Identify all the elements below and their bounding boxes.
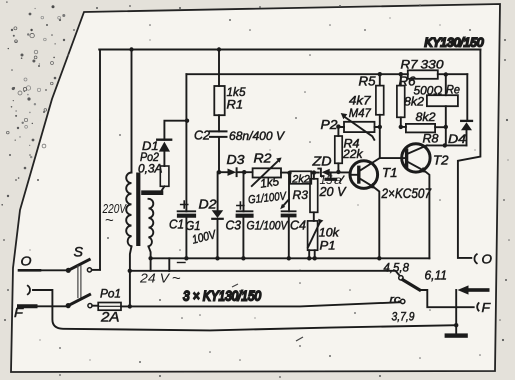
node R3 / divider column [312, 170, 316, 174]
svg-text:20 V: 20 V [318, 185, 347, 199]
wire T2 collector row [427, 144, 467, 146]
svg-text:D2: D2 [199, 198, 217, 212]
svg-text:R2: R2 [254, 152, 272, 166]
stray mark [232, 284, 238, 287]
resistor Re 500ohm [427, 95, 458, 106]
transistor T1 [350, 158, 380, 189]
resistor R7 [408, 70, 438, 79]
relay contact blade [403, 280, 420, 290]
wire divider column [313, 173, 315, 221]
wire arrow column to ground [455, 290, 457, 325]
resistor R8 [406, 124, 435, 132]
svg-text:R1: R1 [227, 98, 244, 112]
wire control supply rail [186, 73, 467, 75]
svg-text:C2: C2 [194, 129, 210, 143]
resistor R5 [376, 86, 384, 115]
terminal F right [477, 300, 491, 315]
switch S pole 2 [66, 295, 99, 309]
node rail / C4 [287, 256, 291, 260]
svg-text:Po2: Po2 [140, 152, 160, 164]
svg-text:2k2: 2k2 [291, 173, 309, 185]
svg-text:O: O [482, 252, 493, 267]
node D3 cathode [242, 170, 246, 174]
wire top supply rail [99, 49, 480, 51]
label 24V~ [139, 270, 181, 287]
wire 220V riser from switch to top rail [99, 50, 101, 270]
svg-text:0,3A: 0,3A [138, 164, 163, 176]
wire R6 column [400, 74, 402, 127]
svg-text:R7: R7 [401, 58, 419, 72]
transformer screen bar [144, 190, 162, 195]
switch S pole 1 [66, 260, 100, 273]
svg-text:G1/100V: G1/100V [247, 221, 289, 233]
svg-text:1k5: 1k5 [259, 174, 280, 191]
terminal F left [14, 305, 66, 320]
svg-text:rc: rc [390, 294, 402, 306]
wire relay feed row [130, 271, 399, 275]
capacitor C3 [237, 172, 253, 258]
svg-text:24 V: 24 V [139, 271, 171, 286]
node R8 / Re [444, 125, 448, 129]
label 15u [320, 175, 345, 187]
wire connector to ground line [33, 290, 456, 330]
node rail / R5 [378, 72, 382, 76]
wire C1 column [185, 74, 187, 258]
relay contact rc upper [399, 276, 403, 280]
node C1 top / D1 branch [185, 119, 189, 123]
svg-text:68n/400 V: 68n/400 V [229, 129, 285, 143]
resistor divider box [310, 179, 318, 213]
wire relay common to F terminal [420, 290, 474, 307]
label C1 plus [181, 201, 188, 208]
wire fuse Po2 to transformer screen [161, 186, 165, 192]
fuse Po1 [98, 303, 121, 311]
connector left [28, 286, 30, 295]
svg-text:C3: C3 [226, 219, 242, 233]
potentiometer P2 [338, 113, 379, 140]
polarity dash [178, 262, 186, 264]
svg-text:10k: 10k [319, 226, 340, 240]
svg-text:6,11: 6,11 [425, 269, 448, 283]
svg-text:D4: D4 [448, 132, 466, 146]
terminal O left [19, 254, 67, 271]
resistor R2 (variable) [252, 158, 282, 187]
resistor R3 2k2 [290, 171, 311, 184]
node collector row / Re [443, 143, 447, 147]
diode D1 [157, 140, 171, 152]
wire transformer primary bottom down to mains row [130, 246, 132, 306]
stray mark 2 [296, 337, 303, 341]
label 220V [102, 202, 128, 229]
wire R8 row [401, 126, 446, 128]
svg-text:8k2: 8k2 [416, 110, 436, 124]
wire T2 emitter to 24V rail [425, 172, 429, 259]
svg-text:3,7,9: 3,7,9 [392, 310, 415, 324]
node fuse row / primary column [128, 304, 132, 308]
svg-text:330: 330 [421, 58, 444, 72]
label C3 plus [237, 202, 244, 209]
svg-text:T1: T1 [382, 166, 398, 180]
svg-text:Po1: Po1 [100, 287, 121, 301]
transformer Tr primary winding [126, 173, 131, 247]
wire Re column [445, 75, 447, 146]
node P1 leg a [307, 256, 311, 260]
capacitor C2 [210, 131, 227, 137]
resistor R4 [335, 136, 342, 163]
svg-text:Re: Re [446, 83, 460, 97]
wire fuse to relay lower contact [121, 302, 401, 306]
diode D2 [212, 172, 224, 258]
wire R5 column [379, 74, 381, 158]
wire R1/C2 column [218, 50, 220, 173]
svg-text:22k: 22k [342, 149, 364, 161]
svg-text:T2: T2 [433, 154, 449, 168]
svg-text:4,5,8: 4,5,8 [384, 261, 410, 275]
node primary / relay feed row [128, 269, 132, 273]
wire rail stub a [150, 258, 152, 271]
svg-text:~: ~ [172, 270, 181, 287]
wire R4 column [337, 127, 339, 172]
node row / R1C2 column [217, 170, 221, 174]
node rail / C3 [241, 256, 245, 260]
node R2 / C4 [287, 171, 291, 175]
wire measuring row [219, 171, 350, 173]
node top rail / transformer primary [129, 47, 133, 51]
wire T1 emitter to 24V rail [375, 188, 380, 258]
svg-text:500Ω: 500Ω [414, 84, 443, 98]
diode D3 [228, 168, 237, 176]
capacitor C4 [280, 173, 295, 258]
wire rail stub b [168, 258, 170, 271]
wire right-side drop from top rail to output terminal O [458, 50, 481, 258]
node R8 / R6 [399, 125, 403, 129]
svg-text:KY130/150: KY130/150 [425, 38, 485, 50]
svg-text:O: O [21, 254, 32, 269]
node rail / T1 emitter [377, 256, 381, 260]
node rail / D2 [215, 256, 219, 260]
svg-text:2×KC507: 2×KC507 [381, 186, 432, 201]
node rail / C1 [184, 256, 188, 260]
node rail / R6 [399, 72, 403, 76]
relay contact rc lower [401, 299, 405, 303]
svg-text:S: S [74, 245, 84, 260]
svg-text:~: ~ [105, 212, 114, 229]
resistor R6 [397, 86, 405, 118]
node rail / Re column [444, 72, 448, 76]
svg-text:P1: P1 [320, 239, 336, 253]
svg-text:2A: 2A [100, 310, 120, 325]
zener diode ZD [318, 169, 329, 177]
svg-text:P2: P2 [321, 118, 338, 132]
node P1 leg b [313, 256, 317, 260]
transformer core [136, 173, 140, 247]
svg-text:3 × KY130/150: 3 × KY130/150 [183, 289, 261, 304]
potentiometer P1 [308, 219, 324, 259]
wire transformer primary top to rail [131, 50, 133, 173]
diode D4 [461, 74, 472, 145]
fuse Po2 [160, 166, 169, 186]
ground [445, 325, 468, 338]
svg-text:F: F [482, 300, 492, 315]
node top rail / R1 column [217, 47, 221, 51]
svg-text:R3: R3 [293, 188, 309, 202]
node bottom wire / ground [454, 323, 458, 327]
node R5 / P2 wiper column [378, 125, 382, 129]
transistor T2 [380, 144, 430, 173]
transformer Tr secondary winding [149, 199, 154, 247]
node rail / secondary [148, 256, 152, 260]
wire D1 branch to C1 node [164, 121, 187, 166]
svg-text:R8: R8 [423, 132, 439, 146]
wire 24V common rail [151, 257, 430, 259]
output arrow [458, 285, 490, 294]
node P2 / R4 [336, 124, 340, 128]
wire transformer secondary bottom to 24V rail [149, 246, 151, 258]
svg-text:D3: D3 [227, 153, 245, 167]
svg-text:ZD: ZD [311, 155, 331, 169]
svg-text:C4: C4 [290, 219, 306, 233]
node ZD / R4 / T1 base [336, 170, 340, 174]
svg-text:C1: C1 [169, 218, 184, 232]
switch linkage [78, 266, 81, 298]
svg-text:M47: M47 [349, 106, 372, 120]
resistor R1 [214, 86, 224, 115]
svg-text:R5: R5 [359, 75, 376, 89]
capacitor C5 [326, 172, 336, 179]
svg-text:D1: D1 [142, 139, 159, 153]
terminal O right [474, 252, 492, 267]
capacitor C1 [178, 211, 196, 215]
